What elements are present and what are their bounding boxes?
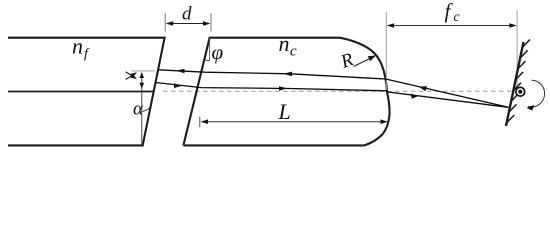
svg-text:n: n (72, 34, 83, 59)
svg-text:d: d (182, 4, 192, 25)
svg-text:f: f (445, 0, 454, 23)
svg-text:f: f (84, 47, 90, 62)
svg-text:φ: φ (212, 40, 224, 64)
svg-text:α: α (133, 99, 144, 120)
svg-text:c: c (290, 44, 297, 60)
svg-text:c: c (454, 9, 460, 24)
svg-text:L: L (278, 99, 291, 124)
svg-text:R: R (337, 49, 356, 73)
svg-text:n: n (279, 31, 290, 56)
